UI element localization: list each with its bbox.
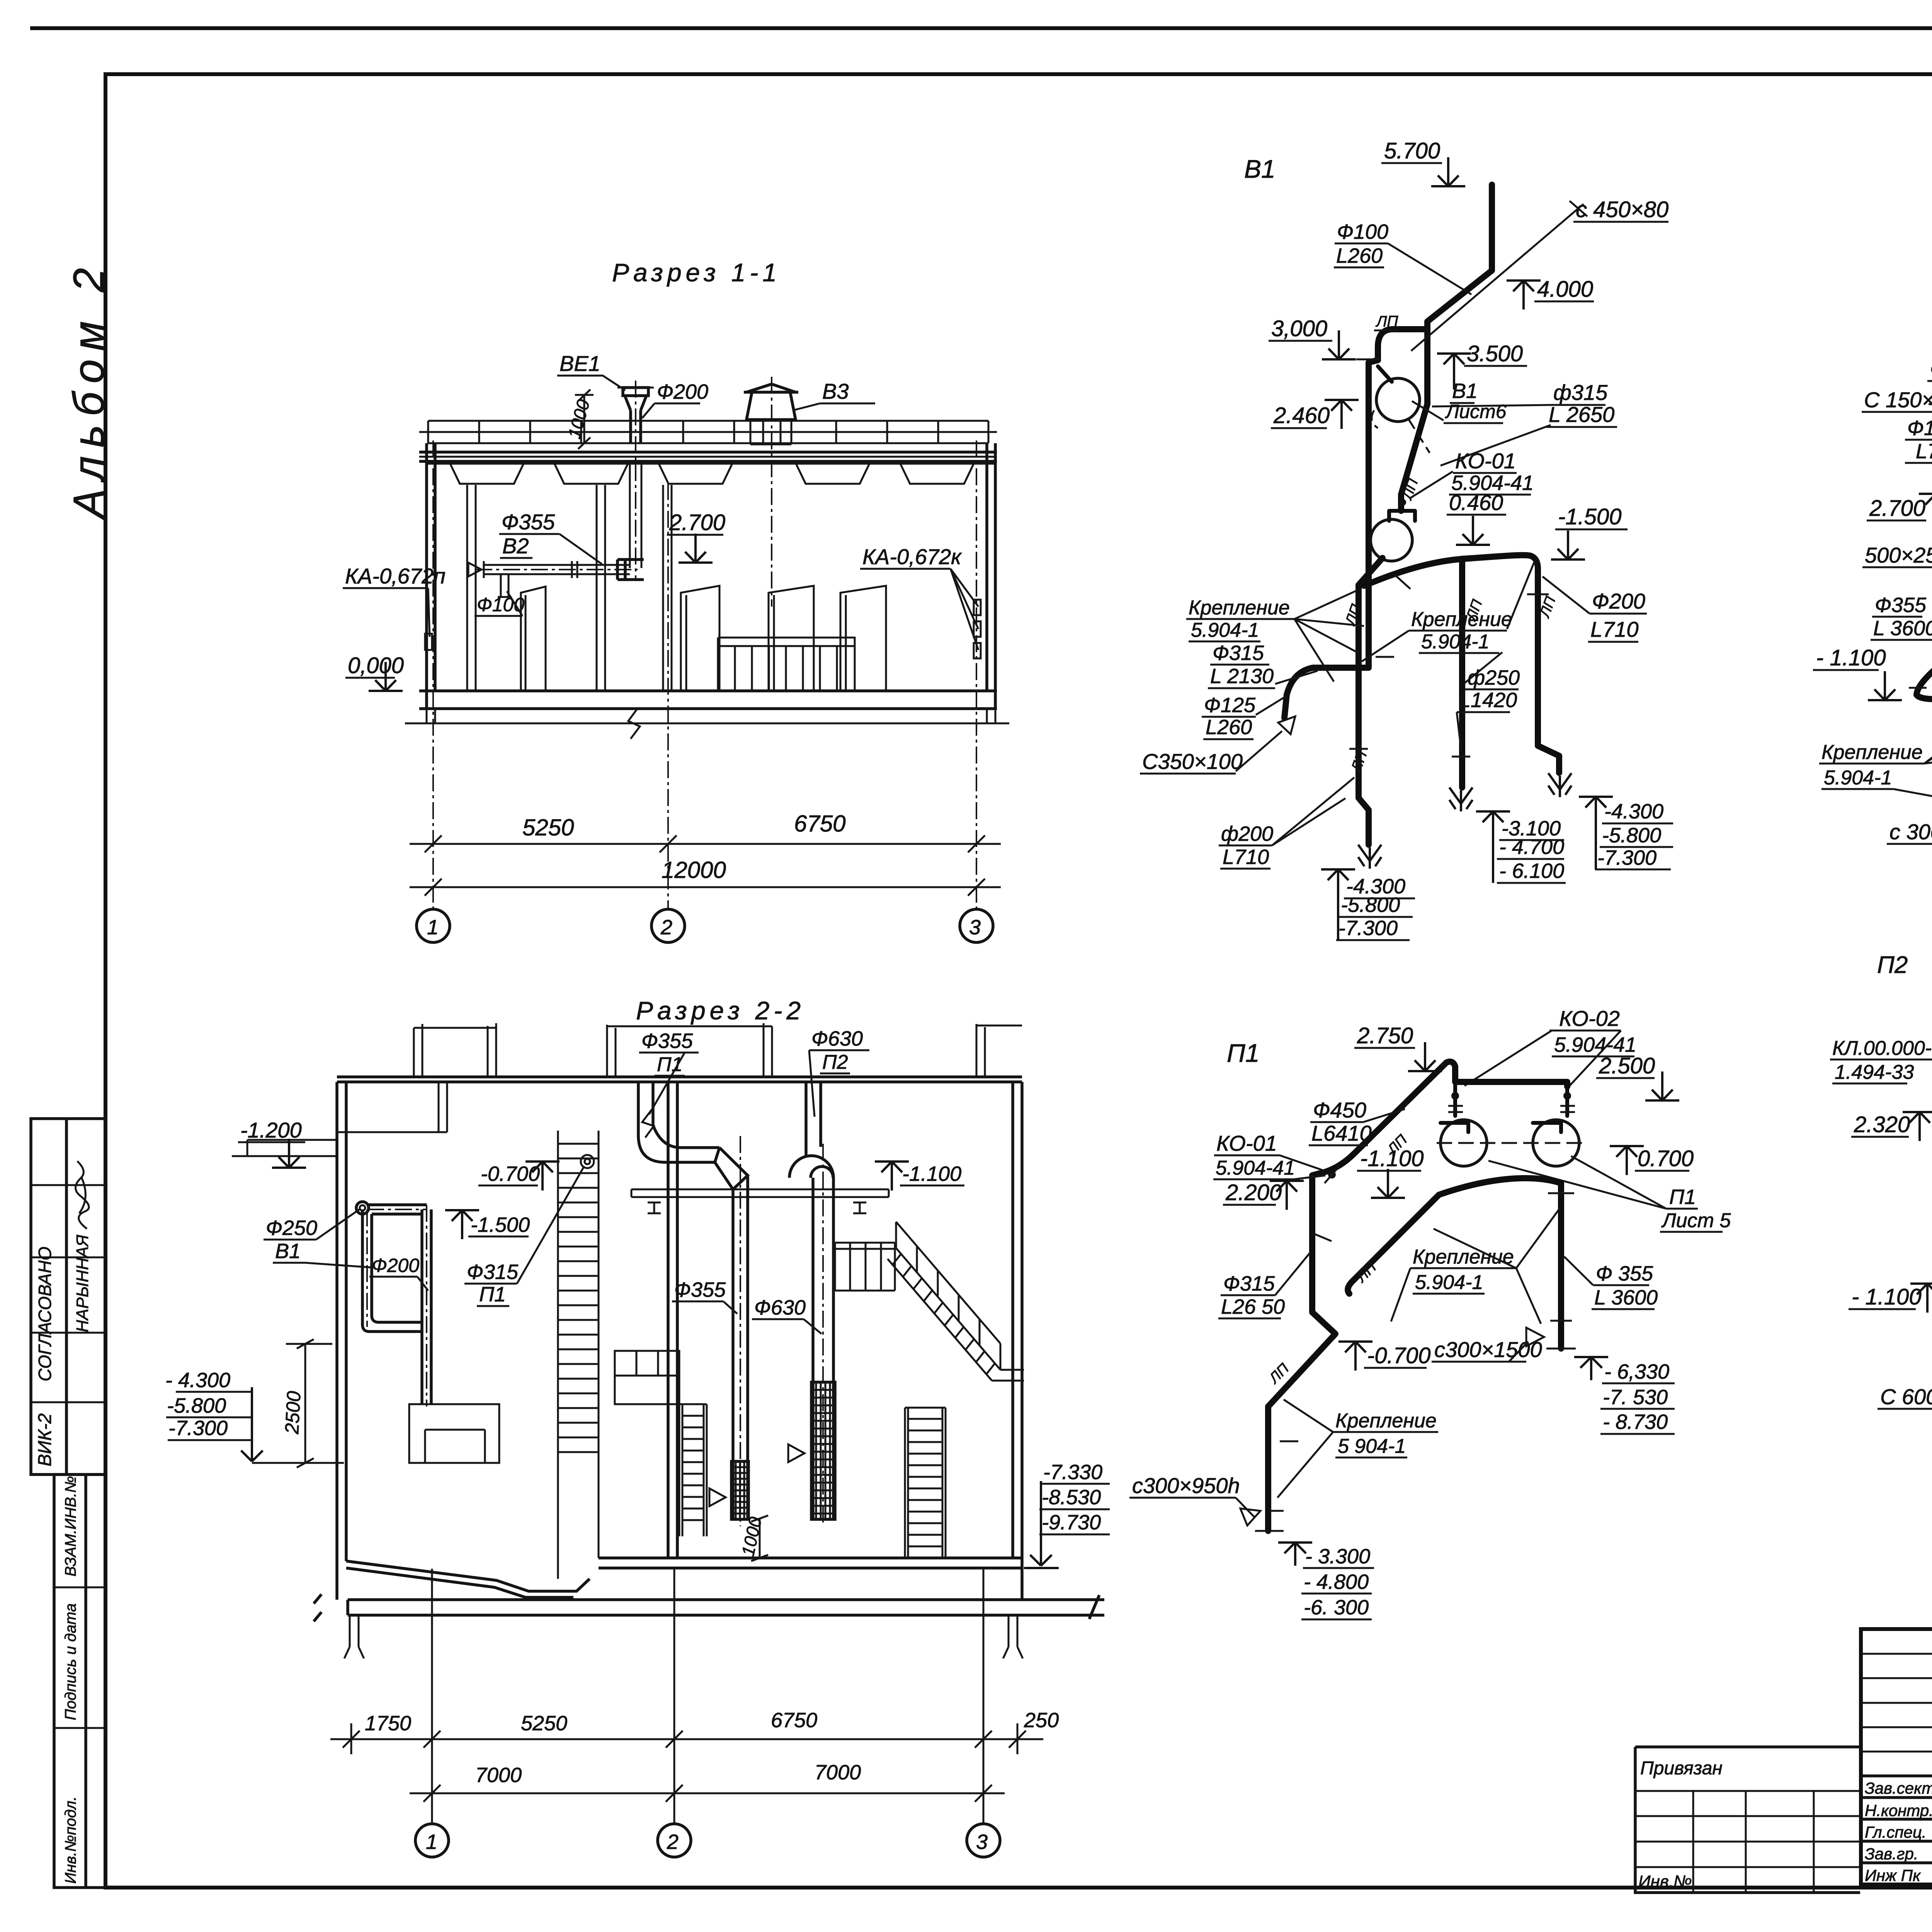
2.200 underline <box>1223 1204 1276 1206</box>
dim 2500 <box>286 1339 332 1468</box>
pipe tick p1 mid <box>1268 1233 1332 1511</box>
svg-text:Лист6: Лист6 <box>1445 401 1507 422</box>
door 4 <box>840 586 886 691</box>
level 3.500 tail <box>1453 382 1455 389</box>
svg-text:КО-01: КО-01 <box>1455 449 1516 473</box>
L3600 v2 underline leader <box>1871 640 1932 657</box>
stack C line2 <box>1600 846 1673 848</box>
superstructure stub 4 <box>764 1023 772 1077</box>
pipe Ф250 middle drop <box>1459 559 1465 787</box>
axis bubble 3 s2 <box>967 1824 1000 1857</box>
superstructure stub 1 <box>414 1024 422 1077</box>
svg-text:Ф100: Ф100 <box>1907 417 1932 440</box>
svg-text:L710: L710 <box>1223 845 1269 869</box>
ceiling line <box>427 463 995 465</box>
svg-text:5.904-1: 5.904-1 <box>1824 767 1892 789</box>
L6410 underline leader <box>1309 1109 1405 1145</box>
svg-text:Привязан: Привязан <box>1640 1758 1723 1779</box>
L2650 underline <box>1546 426 1617 428</box>
tick on left pipe top <box>1356 359 1380 361</box>
svg-text:В3: В3 <box>822 379 849 403</box>
Ф100 L70 underline <box>1905 439 1932 441</box>
VE1 stack top tick <box>617 387 654 389</box>
svg-text:-7.300: -7.300 <box>168 1417 228 1440</box>
svg-text:2: 2 <box>660 916 672 939</box>
VE1 stack pipe <box>631 410 641 443</box>
Ф125 underline <box>1202 716 1256 718</box>
stack p1 line1 <box>1303 1567 1374 1569</box>
svg-text:5.904-1: 5.904-1 <box>1415 1271 1483 1294</box>
P1 horizontal duct <box>672 1148 719 1162</box>
pipe П1 right arc <box>1348 1178 1561 1294</box>
stack B line2 <box>1497 858 1564 860</box>
КЛ underline <box>1830 1059 1932 1061</box>
right stair steps <box>893 1254 995 1374</box>
VE1 stack funnel <box>623 388 648 410</box>
Крепление center underline <box>1409 630 1507 632</box>
svg-text:- 6,330: - 6,330 <box>1604 1360 1669 1383</box>
right stack underline 3 <box>1039 1534 1110 1536</box>
L260 low underline leader <box>1203 696 1286 739</box>
L1420 underline leader <box>1457 712 1510 752</box>
svg-text:Ф200: Ф200 <box>372 1255 419 1276</box>
axis bubble 1 s2 <box>415 1824 449 1857</box>
-0.700 p1 underline <box>1364 1367 1427 1369</box>
level 2.700 underline <box>667 534 723 536</box>
svg-text:-1.200: -1.200 <box>240 1118 302 1142</box>
stack C arrow <box>1579 797 1613 826</box>
left wall <box>427 443 435 709</box>
label Ф100 underline <box>1335 243 1388 245</box>
svg-text:Инв.№: Инв.№ <box>1638 1872 1692 1891</box>
2.750 mark <box>1408 1042 1442 1071</box>
valve dot left <box>1451 1092 1459 1100</box>
wall sleeve k2 <box>974 621 981 637</box>
svg-text:L6410: L6410 <box>1311 1121 1372 1145</box>
central stair rungs <box>558 1144 599 1452</box>
svg-text:Ф315: Ф315 <box>1223 1272 1275 1295</box>
0.460 level mark <box>1456 516 1490 545</box>
ЛП underline <box>1374 330 1398 332</box>
svg-text:5.904-1: 5.904-1 <box>1421 631 1489 653</box>
svg-text:L 2650: L 2650 <box>1549 402 1614 427</box>
label Ф355 underline <box>639 1052 699 1054</box>
svg-text:ф200: ф200 <box>1221 822 1273 845</box>
stack A line2 <box>1338 916 1413 918</box>
svg-text:НАРЫННАЯ: НАРЫННАЯ <box>73 1235 92 1332</box>
svg-text:3,000: 3,000 <box>1271 316 1327 341</box>
stack p1r arrow <box>1574 1357 1608 1380</box>
P2 screen mesh <box>811 1382 835 1519</box>
fan В1 lower mouth <box>1389 511 1415 521</box>
level 2.460 mark <box>1325 400 1359 429</box>
label Ф630 duct underline leader <box>752 1319 821 1334</box>
svg-text:-7.300: -7.300 <box>1597 846 1656 869</box>
svg-text:12000: 12000 <box>662 857 726 883</box>
svg-text:Ф450: Ф450 <box>1313 1098 1366 1122</box>
svg-text:Крепление: Крепление <box>1413 1246 1514 1268</box>
pipe В1 main riser <box>1401 185 1492 511</box>
stack A line1 <box>1344 898 1415 900</box>
svg-text:Крепление: Крепление <box>1411 608 1512 631</box>
svg-text:Ф315: Ф315 <box>467 1260 519 1284</box>
crane I mark 1 <box>648 1202 661 1213</box>
left wall underground <box>337 1082 346 1600</box>
dim line 12000 <box>410 879 1001 896</box>
svg-text:Ф630: Ф630 <box>811 1027 863 1050</box>
svg-text:Ф355: Ф355 <box>641 1029 693 1053</box>
svg-text:Разрез 1-1: Разрез 1-1 <box>612 258 781 287</box>
Ф315 L2130 underline <box>1210 664 1269 666</box>
svg-text:КО-01: КО-01 <box>1216 1131 1277 1155</box>
left stack underline 1 <box>176 1391 252 1393</box>
fan В1 lower outlet <box>1359 558 1383 585</box>
КО-01 leader <box>1410 471 1453 498</box>
Ф450 underline <box>1310 1121 1363 1123</box>
svg-text:1.494-33: 1.494-33 <box>1835 1061 1914 1083</box>
label В2 underline leader <box>500 534 602 564</box>
L3670 underline leader <box>1929 381 1932 410</box>
svg-text:0,000: 0,000 <box>348 653 404 678</box>
svg-text:2.500: 2.500 <box>1599 1053 1655 1078</box>
svg-text:Н.контр.: Н.контр. <box>1865 1801 1932 1820</box>
svg-text:5.904-1: 5.904-1 <box>1191 619 1259 641</box>
svg-text:Ф200: Ф200 <box>1592 589 1645 613</box>
label Ф200 sec2 underline leader <box>369 1277 428 1291</box>
svg-text:В2: В2 <box>502 534 529 558</box>
door 2 <box>681 586 719 691</box>
V2 horizontal pipe <box>484 565 630 574</box>
dim line 5250-6750 <box>410 835 1001 852</box>
Крепление p1 low underline <box>1333 1431 1438 1433</box>
svg-text:Альбом 2: Альбом 2 <box>65 260 113 520</box>
equipment bench dividers <box>735 646 837 691</box>
svg-text:0.460: 0.460 <box>1449 490 1503 515</box>
svg-text:с300×1500: с300×1500 <box>1434 1337 1542 1362</box>
Крепление p1 underline <box>1410 1267 1516 1269</box>
superstructure stub 3 <box>607 1025 616 1077</box>
ground line <box>405 723 1009 724</box>
pipe В1 left branch <box>1284 329 1427 718</box>
1.494-33 underline leader <box>1832 1060 1932 1083</box>
svg-text:-6. 300: -6. 300 <box>1304 1596 1369 1619</box>
drop top tick <box>1909 679 1932 796</box>
КО-01 underline <box>1453 472 1517 474</box>
svg-text:КА-0,672п: КА-0,672п <box>345 564 446 588</box>
dim 1000 r22 <box>751 1515 768 1561</box>
svg-text:Лист 5: Лист 5 <box>1661 1209 1731 1232</box>
stack p1r line2 <box>1600 1408 1675 1410</box>
svg-text:-7.330: -7.330 <box>1043 1461 1102 1484</box>
valve tick right <box>1560 1106 1575 1112</box>
svg-text:- 1.100: - 1.100 <box>1816 645 1886 670</box>
svg-text:П1: П1 <box>1227 1039 1260 1067</box>
wall sleeve left <box>425 634 432 650</box>
stamp upper box divider <box>65 1119 68 1475</box>
label Ф100 underline <box>474 591 522 616</box>
axis bubble 2 s2 <box>658 1824 691 1857</box>
L710 right underline leader <box>1543 577 1638 642</box>
title block outer rect <box>1861 1629 1932 1884</box>
break squiggle <box>628 709 640 739</box>
P1 transition piece <box>715 1148 748 1189</box>
L710 bottom underline leaders <box>1220 777 1354 869</box>
right wall <box>987 443 995 709</box>
right vertical ticks <box>1546 1193 1576 1349</box>
right stack underline 2 <box>1039 1509 1110 1510</box>
level -1.500 mark <box>445 1210 479 1239</box>
svg-text:2500: 2500 <box>281 1390 305 1435</box>
axis line 2 s2 <box>673 1569 675 1824</box>
level 2.460 underline <box>1271 427 1327 429</box>
svg-text:- 8.730: - 8.730 <box>1603 1410 1668 1434</box>
svg-text:5250: 5250 <box>522 815 574 840</box>
svg-text:Подпись и дата: Подпись и дата <box>62 1603 79 1720</box>
interior wall axis2 <box>663 485 672 691</box>
lower right stair rungs <box>905 1408 946 1546</box>
2.700 underline v2 <box>1867 520 1926 522</box>
fan П1 right mouth <box>1533 1123 1561 1132</box>
2.320 mark <box>1903 1112 1932 1141</box>
svg-text:- 4.700: - 4.700 <box>1499 835 1564 859</box>
label КА-0,672п underline leader <box>343 588 430 637</box>
V1 top flange <box>356 1202 369 1214</box>
L2650 p1 underline leader <box>1218 1252 1311 1318</box>
stack p1r line3 <box>1600 1433 1675 1435</box>
Лист5 underline leaders <box>1488 1156 1723 1232</box>
5.904-1 v2 underline <box>1821 788 1893 790</box>
Крепление center leaders <box>1362 563 1534 683</box>
fan В1 upper inlet <box>1378 366 1392 382</box>
Ф355 p1 underline <box>1593 1284 1649 1286</box>
ф315 underline <box>1551 404 1605 406</box>
svg-text:3: 3 <box>976 1830 988 1854</box>
svg-text:L 3600: L 3600 <box>1594 1286 1658 1309</box>
attach table rows <box>1635 1791 1860 1867</box>
Ф315 П1 cut circle <box>581 1155 594 1168</box>
svg-text:500×250: 500×250 <box>1865 543 1932 567</box>
svg-text:5.700: 5.700 <box>1384 138 1440 163</box>
stair bottom landing <box>992 1370 1024 1381</box>
-1.100 mark v2 <box>1868 671 1902 700</box>
level -1.200 underline <box>238 1141 305 1143</box>
pipe tick marks <box>1349 575 1549 757</box>
svg-text:с 450×80: с 450×80 <box>1576 197 1668 222</box>
КО-01 valve dot <box>1399 499 1406 506</box>
pipe bottom tick p1 <box>1255 1530 1284 1532</box>
svg-text:L26 50: L26 50 <box>1221 1295 1285 1318</box>
svg-text:-7.300: -7.300 <box>1338 917 1398 940</box>
svg-text:КЛ.00.000-02: КЛ.00.000-02 <box>1832 1037 1932 1060</box>
svg-text:П2: П2 <box>1877 952 1908 978</box>
level 2.700 mark <box>679 534 713 563</box>
svg-text:3.500: 3.500 <box>1467 341 1523 366</box>
central wall <box>668 1082 677 1559</box>
below floor stubs <box>427 709 995 723</box>
parapet joints <box>419 421 997 443</box>
label П1 mid underline leader <box>477 1166 584 1306</box>
flow triangle P1 <box>709 1488 726 1506</box>
svg-text:6750: 6750 <box>794 811 845 837</box>
rib beam 3 <box>659 464 732 484</box>
roof slab band <box>419 452 997 461</box>
ground slab <box>337 1077 1022 1082</box>
roof slab mid line <box>419 456 997 458</box>
rib beam 2 <box>554 464 628 484</box>
level 3.500 underline <box>1464 365 1527 367</box>
stack p1r line1 <box>1602 1383 1675 1384</box>
svg-text:2.320: 2.320 <box>1854 1112 1910 1137</box>
level 3.000 underline <box>1269 340 1332 342</box>
stack A arrow <box>1321 869 1355 898</box>
-1.500 mark <box>1551 531 1585 560</box>
Крепление left underline <box>1186 618 1294 620</box>
svg-text:L710: L710 <box>1590 617 1639 641</box>
5904-1 low underline leaders <box>1277 1400 1407 1498</box>
ф315 leaders <box>1432 405 1551 466</box>
Ф200 right underline <box>1590 613 1647 615</box>
stack B line3 <box>1497 882 1566 884</box>
svg-text:Гл.спец.: Гл.спец. <box>1865 1823 1927 1841</box>
svg-text:L 3600: L 3600 <box>1873 617 1932 640</box>
superstructure stub 5 <box>976 1024 985 1077</box>
svg-text:В1: В1 <box>1244 155 1276 183</box>
V2 pipe centerline <box>475 569 638 570</box>
machine hall floor <box>599 1558 1022 1568</box>
rib beam 4 <box>796 464 869 484</box>
2.320 underline <box>1851 1136 1909 1138</box>
stack B arrow <box>1476 811 1510 840</box>
mid landing platform <box>615 1351 679 1404</box>
V1 pipe loop bottom <box>369 1322 422 1332</box>
label Ф250 underline <box>264 1239 316 1241</box>
level 4.000 underline <box>1534 301 1594 303</box>
flow triangle P2 <box>788 1444 804 1462</box>
svg-text:L260: L260 <box>1206 716 1252 739</box>
pipe П1 top horizontal <box>1446 1062 1567 1087</box>
left entry landing <box>232 1140 337 1156</box>
svg-text:- 4.800: - 4.800 <box>1304 1570 1369 1594</box>
V3 centerline <box>771 377 772 607</box>
svg-text:-5.800: -5.800 <box>1341 893 1400 917</box>
stack B line1 <box>1499 839 1564 841</box>
label L260 underline leader <box>1334 243 1471 294</box>
svg-text:П2: П2 <box>822 1051 848 1073</box>
P2 duct riser <box>806 1082 821 1155</box>
0.700 mark <box>1610 1146 1644 1175</box>
pipe В1 arc branch to right <box>1364 555 1559 773</box>
svg-text:1750: 1750 <box>365 1712 411 1735</box>
P1 vertical duct <box>733 1175 748 1519</box>
right stack connector arrow <box>1024 1481 1059 1568</box>
svg-text:6750: 6750 <box>771 1709 817 1732</box>
Ф355 underline v2 <box>1927 380 1932 382</box>
below slab stub right <box>1003 1615 1023 1658</box>
2.500 underline <box>1596 1077 1655 1079</box>
VE1 centerline <box>635 381 636 580</box>
-1.100 p1 mark <box>1371 1169 1405 1198</box>
5.904-1 center underline <box>1419 652 1499 654</box>
pipe fan drop left <box>1453 1082 1457 1116</box>
svg-text:-7. 530: -7. 530 <box>1603 1386 1668 1409</box>
svg-text:П1: П1 <box>479 1283 506 1306</box>
level 5.700 mark <box>1431 157 1465 186</box>
level 0,000 mark <box>369 662 403 691</box>
P1 intake screen <box>731 1461 748 1519</box>
svg-text:Ф355: Ф355 <box>1930 358 1932 381</box>
stack A connector <box>1337 897 1339 940</box>
svg-text:Ф200: Ф200 <box>657 380 708 403</box>
svg-text:Ф 355: Ф 355 <box>1596 1262 1653 1285</box>
5.904-1 left underline <box>1189 641 1260 643</box>
svg-text:- 4.300: - 4.300 <box>165 1369 230 1392</box>
svg-text:Крепление: Крепление <box>1335 1410 1437 1432</box>
svg-text:ф250: ф250 <box>1468 666 1520 689</box>
wall sleeve k3 <box>974 643 981 658</box>
svg-text:В1: В1 <box>275 1240 301 1263</box>
label П2 underline leader <box>809 1050 850 1117</box>
L2130 underline leader <box>1208 671 1318 688</box>
label Ф355 duct underline leader <box>672 1301 737 1314</box>
open triangle left branch end <box>1278 716 1295 734</box>
5.904-41 p1 underline leader <box>1464 1031 1634 1086</box>
V2 inlet triangle <box>468 561 484 578</box>
-1.100 p1 underline <box>1357 1170 1421 1172</box>
right stair railing <box>896 1222 1000 1370</box>
label Ф315 underline <box>464 1283 517 1285</box>
pipe В1 left drop branch <box>1359 585 1369 845</box>
lower mid stair sides <box>679 1404 707 1536</box>
label Ф200 underline leader <box>642 403 700 418</box>
Лист6 underline leader <box>1412 401 1503 423</box>
stack p1 line3 <box>1301 1619 1372 1621</box>
svg-text:2.700: 2.700 <box>669 510 725 535</box>
flow triangle p1 right <box>1526 1328 1544 1346</box>
rib beam 1 <box>450 464 524 484</box>
-1.100 underline v2 <box>1813 669 1879 671</box>
label В1 underline leader <box>273 1209 371 1267</box>
right platform rail <box>835 1243 895 1291</box>
label П1 underline leader <box>642 1053 685 1138</box>
Крепление v2 leaders <box>1893 687 1932 815</box>
attach table columns <box>1693 1791 1814 1893</box>
label с 450х80 underline <box>1573 221 1668 223</box>
svg-text:5.904-41: 5.904-41 <box>1216 1157 1295 1179</box>
P1 duct riser <box>638 1082 653 1135</box>
svg-text:С 150×80: С 150×80 <box>1864 388 1932 412</box>
axis line 1 s2 <box>431 1569 433 1824</box>
ф250 underline <box>1465 689 1519 690</box>
svg-text:Ф100: Ф100 <box>477 594 524 616</box>
svg-text:7000: 7000 <box>475 1764 522 1787</box>
svg-text:Крепление: Крепление <box>1821 741 1923 764</box>
fan П1 right <box>1533 1120 1579 1166</box>
svg-text:L70: L70 <box>1916 440 1932 463</box>
stack C line3 <box>1595 869 1671 871</box>
fan П1 left mouth <box>1440 1123 1468 1132</box>
title block name rows <box>1861 1776 1932 1863</box>
label ВЕ1 underline and leader <box>557 376 625 390</box>
svg-text:-5.800: -5.800 <box>1602 824 1661 847</box>
с300х1500 underline leader <box>1432 1342 1528 1362</box>
axis bubble 1 <box>417 909 450 942</box>
svg-text:1: 1 <box>427 916 439 939</box>
svg-text:1: 1 <box>426 1830 437 1854</box>
2.500 mark <box>1645 1071 1679 1100</box>
svg-text:с300×950h: с300×950h <box>1132 1473 1240 1498</box>
С600х2500 underline leader <box>1878 1380 1932 1409</box>
svg-text:с 300×1000: с 300×1000 <box>1889 820 1932 844</box>
